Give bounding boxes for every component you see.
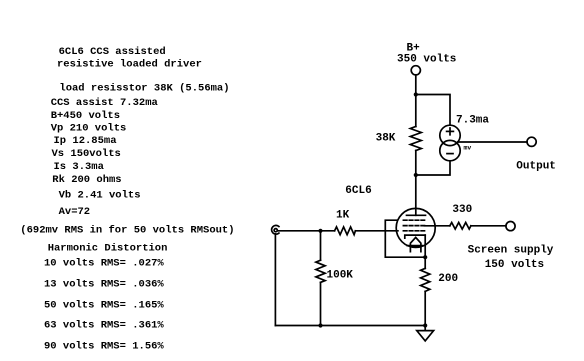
wire input to grid [278,230,335,232]
wire CCS to output [458,141,527,143]
wire bottom rail [275,325,425,327]
cathode lead [424,235,426,257]
g3 to cathode tie [385,220,425,257]
ground [417,326,434,341]
wire jack shell down [274,234,276,326]
svg-text:50 volts RMS= .165%: 50 volts RMS= .165% [44,299,164,311]
node 100K bottom [318,323,322,327]
svg-text:Ip 12.85ma: Ip 12.85ma [54,135,118,147]
svg-text:6CL6 CCS assisted: 6CL6 CCS assisted [59,46,166,58]
svg-text:Rk 200 ohms: Rk 200 ohms [52,174,121,186]
node plate junction [414,173,418,177]
resistor 330 [450,223,471,230]
svg-text:100K: 100K [327,270,354,282]
svg-text:Screen supply: Screen supply [468,245,554,257]
tube plate [407,214,426,216]
terminal Output [527,137,536,146]
svg-text:(692mv RMS in for 50 volts RMS: (692mv RMS in for 50 volts RMSout) [20,225,234,237]
wire top to CCS branch [416,95,450,126]
wire 330 to screen terminal [471,225,506,227]
CCS current source U1 [440,125,460,161]
resistor 38K [410,95,421,216]
svg-text:Is 3.3ma: Is 3.3ma [54,161,105,173]
node 200 bottom [423,323,427,327]
terminal B+ [411,66,420,75]
svg-text:6CL6: 6CL6 [345,185,371,197]
svg-text:10 volts RMS= .027%: 10 volts RMS= .027% [44,258,164,270]
svg-text:7.3ma: 7.3ma [456,115,489,127]
tube grid g1 dashes [403,219,424,221]
svg-text:63 volts RMS= .361%: 63 volts RMS= .361% [44,320,164,332]
svg-text:90 volts RMS= 1.56%: 90 volts RMS= 1.56% [44,340,164,352]
resistor 200 [421,257,430,325]
svg-text:Vp 210 volts: Vp 210 volts [51,123,127,135]
wire 1K to grid [355,230,398,232]
svg-text:Harmonic Distortion: Harmonic Distortion [48,242,168,254]
tube 6CL6 V1 envelope [396,208,435,247]
svg-text:Av=72: Av=72 [59,206,91,218]
svg-text:150 volts: 150 volts [485,259,544,271]
input jack shell [272,225,279,234]
tube grid g3 dashes [403,230,424,232]
svg-text:Output: Output [516,161,556,173]
wire CCS bottom [416,161,450,175]
heater crossbar [407,245,422,247]
svg-text:200: 200 [438,273,458,285]
svg-text:load resisstor 38K (5.56ma): load resisstor 38K (5.56ma) [59,82,229,94]
svg-text:B+450 volts: B+450 volts [51,110,120,122]
svg-text:CCS assist 7.32ma: CCS assist 7.32ma [51,97,159,109]
node grid junction [318,229,322,233]
input jack pin [274,229,277,232]
tube cathode [405,235,425,238]
svg-text:330: 330 [452,204,472,216]
tube heater [410,237,421,251]
node cathode junction [423,255,427,259]
tube grid g2 dashes [403,225,424,227]
wire screen to 330 [425,225,450,227]
svg-text:resistive loaded driver: resistive loaded driver [57,59,202,71]
svg-text:Vs 150volts: Vs 150volts [52,148,121,160]
wire B+ to node [415,75,417,95]
resistor 1K [335,227,356,235]
svg-text:mv: mv [464,145,472,152]
svg-text:Vb 2.41 volts: Vb 2.41 volts [59,189,141,201]
terminal screen supply [506,222,515,231]
resistor 100K [316,231,325,326]
svg-text:13 volts RMS= .036%: 13 volts RMS= .036% [44,279,164,291]
svg-text:1K: 1K [336,210,350,222]
node plate-top junction [414,92,418,96]
svg-text:350 volts: 350 volts [397,54,456,66]
svg-text:38K: 38K [376,133,396,145]
